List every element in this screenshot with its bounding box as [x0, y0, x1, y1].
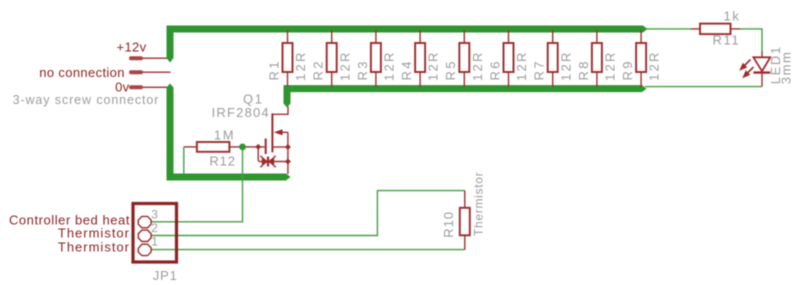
- svg-text:R3: R3: [355, 59, 370, 80]
- resistor R12: [197, 142, 230, 152]
- svg-text:3-way screw connector: 3-way screw connector: [13, 93, 160, 107]
- LED LED1 cathode bar: [753, 71, 770, 73]
- bus heater (drain) rail with stub to Q1: [287, 89, 642, 104]
- svg-text:R10: R10: [441, 211, 456, 238]
- bus 0v left vertical and bottom rail: [170, 88, 286, 178]
- svg-text:Thermistor: Thermistor: [58, 239, 130, 254]
- svg-text:12R: 12R: [337, 50, 352, 81]
- svg-text:3: 3: [151, 207, 158, 221]
- connector JP1 box: [133, 204, 177, 263]
- wire LED bottom to heater bus: [645, 86, 762, 88]
- wire R1 top lead: [287, 30, 289, 43]
- bus heater stub bottom taper tip: [284, 104, 291, 108]
- junction dot gate node: [239, 144, 246, 151]
- wire R12 left to 0v bus: [183, 147, 185, 174]
- resistor R12 left lead: [184, 146, 197, 148]
- wire R9 top lead: [640, 30, 642, 43]
- junction diamond on rail at source stub: [285, 144, 291, 150]
- bus +12v top rail with left corner: [170, 29, 643, 58]
- svg-text:R9: R9: [620, 59, 635, 80]
- wire R2 bottom lead: [331, 72, 333, 87]
- wire R1 bottom lead: [287, 72, 289, 87]
- svg-text:JP1: JP1: [153, 268, 178, 283]
- wire R4 top lead: [419, 30, 421, 43]
- resistor R1: [283, 43, 293, 72]
- resistor R6: [504, 43, 514, 72]
- svg-text:R4: R4: [399, 59, 414, 80]
- wire R5 bottom lead: [463, 72, 465, 87]
- wire LED cathode lead: [761, 73, 763, 87]
- wire R8 bottom lead: [596, 72, 598, 87]
- svg-text:+12v: +12v: [117, 40, 147, 55]
- svg-text:3mm: 3mm: [778, 50, 793, 84]
- resistor R10 top lead: [464, 191, 466, 208]
- wire R6 top lead: [508, 30, 510, 43]
- wire JP1 pin2 to R10 top: [151, 191, 465, 236]
- wire LED anode lead: [761, 52, 763, 58]
- svg-text:1M: 1M: [214, 127, 235, 142]
- wire R6 bottom lead: [508, 72, 510, 87]
- svg-text:12R: 12R: [647, 50, 662, 81]
- svg-text:Thermistor: Thermistor: [471, 172, 485, 236]
- resistor R10 bottom lead: [464, 235, 466, 249]
- svg-text:12R: 12R: [603, 50, 618, 81]
- pin no-connection dash: [131, 70, 141, 74]
- svg-text:R11: R11: [713, 33, 741, 48]
- wire R7 bottom lead: [552, 72, 554, 87]
- resistor R7: [548, 43, 558, 72]
- wire R2 top lead: [331, 30, 333, 43]
- svg-text:12R: 12R: [293, 50, 308, 81]
- resistor R12 right lead: [229, 146, 242, 148]
- bus heater right taper tip: [642, 85, 647, 92]
- wire gate: [246, 146, 265, 148]
- transistor Q1 right rail to source: [287, 132, 289, 174]
- wire R11 right lead: [731, 28, 741, 30]
- wire R11 to LED corner: [740, 29, 762, 52]
- wire R3 top lead: [375, 30, 377, 43]
- wire 0v pin stub: [141, 86, 169, 88]
- wire +12v pin stub: [141, 57, 169, 59]
- svg-text:R2: R2: [311, 59, 326, 80]
- wire R5 top lead: [463, 30, 465, 43]
- wire zener branch: [258, 147, 288, 162]
- svg-text:R12: R12: [209, 153, 236, 168]
- resistor R11: [700, 24, 731, 34]
- pin 0v dash: [131, 85, 141, 89]
- svg-text:R1: R1: [266, 59, 281, 80]
- svg-text:1k: 1k: [724, 9, 741, 24]
- svg-text:1: 1: [151, 235, 158, 249]
- svg-text:R8: R8: [576, 59, 591, 80]
- bus 0v upper taper tip: [167, 84, 174, 88]
- diode zener body: bowtie: [260, 156, 275, 167]
- transistor Q1 channel bar: [271, 113, 273, 152]
- bus +12v right taper tip: [643, 26, 648, 33]
- resistor R10: [460, 208, 470, 236]
- svg-text:12R: 12R: [426, 50, 441, 81]
- transistor Q1 drain lead: [272, 107, 288, 115]
- wire R9 bottom lead: [640, 72, 642, 87]
- pin +12v dash: [131, 56, 141, 60]
- connector JP1 pin2 octagon: [138, 230, 151, 241]
- svg-text:12R: 12R: [514, 50, 529, 81]
- svg-text:IRF2804: IRF2804: [212, 105, 270, 120]
- wire R3 bottom lead: [375, 72, 377, 87]
- connector JP1 pin1 octagon: [138, 244, 151, 255]
- wire R11 left lead: [691, 28, 700, 30]
- wire R8 top lead: [596, 30, 598, 43]
- wire top bus to R11: [645, 28, 691, 30]
- LED light arrow 2: [744, 67, 754, 77]
- svg-text:12R: 12R: [470, 50, 485, 81]
- resistor R4: [415, 43, 425, 72]
- svg-text:12R: 12R: [558, 50, 573, 81]
- wire gate node down to JP1 pin3: [151, 147, 242, 222]
- transistor Q1 substrate arrow: [274, 129, 288, 135]
- wire JP1 pin1 to R10 bottom: [151, 249, 465, 251]
- junction diamond on rail at zener: [285, 159, 291, 165]
- svg-text:2: 2: [151, 221, 158, 235]
- bus +12v upper-left taper tip: [167, 58, 174, 63]
- resistor R5: [459, 43, 469, 72]
- LED light arrow 1: [741, 60, 751, 70]
- resistor R9: [636, 43, 646, 72]
- LED LED1 triangle: [753, 57, 770, 71]
- resistor R8: [592, 43, 602, 72]
- svg-text:Thermistor: Thermistor: [58, 225, 130, 240]
- wire R4 bottom lead: [419, 72, 421, 87]
- svg-text:no connection: no connection: [39, 65, 125, 80]
- svg-text:R6: R6: [487, 59, 502, 80]
- wire R7 top lead: [552, 30, 554, 43]
- wire no-connection stub: [141, 71, 171, 73]
- svg-text:12R: 12R: [382, 50, 397, 81]
- svg-text:R7: R7: [532, 59, 547, 80]
- connector JP1 pin3 octagon: [138, 216, 151, 227]
- junction diamond on gate wire: [255, 144, 261, 150]
- resistor R2: [327, 43, 337, 72]
- bus 0v right taper tip: [286, 174, 291, 181]
- transistor Q1 source stub: [272, 146, 288, 148]
- transistor Q1 gate plate: [265, 139, 267, 155]
- resistor R3: [371, 43, 381, 72]
- svg-text:R5: R5: [443, 59, 458, 80]
